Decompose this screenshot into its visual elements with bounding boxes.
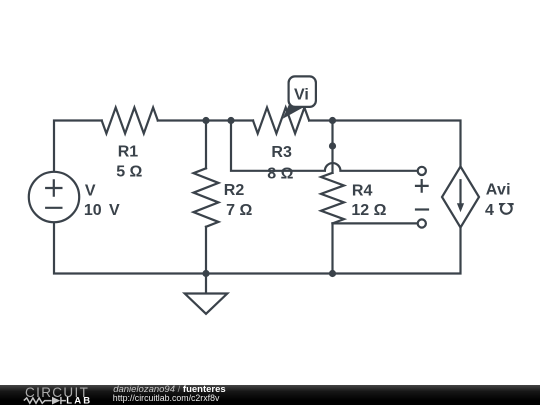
- wire R4 bottom lead: [331, 223, 333, 273]
- svg-text:7 Ω: 7 Ω: [226, 202, 252, 219]
- svg-text:Avi: Avi: [486, 182, 511, 199]
- node C top (R4 junction): [329, 117, 336, 124]
- wire ground stem: [205, 274, 207, 294]
- probe Vi pointer: [283, 105, 304, 119]
- svg-text:5 Ω: 5 Ω: [116, 164, 142, 181]
- svg-text:R4: R4: [352, 182, 373, 199]
- voltage source minus sign: [46, 207, 61, 209]
- wire node B to plus terminal with hop over R4 branch: [231, 121, 418, 171]
- node R4 upper lead junction: [329, 142, 336, 149]
- wire bottom rail: [54, 222, 461, 273]
- dependent current source Avi diamond: [442, 167, 479, 228]
- resistor R3: [253, 108, 309, 134]
- probe Vi box: [289, 76, 316, 107]
- resistor R2: [194, 168, 219, 227]
- footer bar: [0, 385, 540, 405]
- footer url line: [113, 393, 220, 403]
- svg-text:R3: R3: [271, 144, 292, 161]
- svg-text:LAB: LAB: [66, 395, 92, 405]
- voltage source plus sign: [46, 180, 61, 195]
- resistor R4: [321, 173, 344, 224]
- svg-text:4: 4: [485, 202, 494, 219]
- terminal - circle: [418, 219, 426, 227]
- svg-text:Vi: Vi: [294, 87, 309, 104]
- svg-text:R2: R2: [224, 182, 245, 199]
- svg-text:12 Ω: 12 Ω: [351, 202, 386, 219]
- wire left rail and top-left segment: [54, 121, 102, 172]
- minus sign output: [416, 208, 428, 210]
- svg-text:V: V: [85, 182, 96, 199]
- dependent source arrow: [459, 180, 461, 204]
- wire R4 bottom to minus terminal: [333, 222, 418, 224]
- node ground junction: [202, 270, 209, 277]
- wire R4 top lead: [331, 121, 333, 173]
- plus sign output: [416, 180, 428, 192]
- wire R2 bottom lead: [205, 227, 207, 274]
- CircuitLab logo: [0, 385, 110, 405]
- svg-text:R1: R1: [118, 144, 139, 161]
- footer credit line: [113, 384, 226, 395]
- resistor R1: [102, 108, 158, 134]
- wire top middle segment: [158, 119, 253, 121]
- wire R2 top lead: [205, 121, 207, 169]
- node B top (probe wire junction): [227, 117, 234, 124]
- svg-text:8 Ω: 8 Ω: [267, 165, 293, 182]
- node R4 bottom rail junction: [329, 270, 336, 277]
- svg-text:10 V: 10 V: [84, 202, 120, 219]
- voltage source V circle: [29, 172, 79, 222]
- node A top (R2 junction): [202, 117, 209, 124]
- wire top right segment to dependent source: [309, 121, 460, 167]
- ground: [185, 294, 228, 314]
- mho symbol for 4 mho: [500, 204, 513, 214]
- terminal + circle: [418, 167, 426, 175]
